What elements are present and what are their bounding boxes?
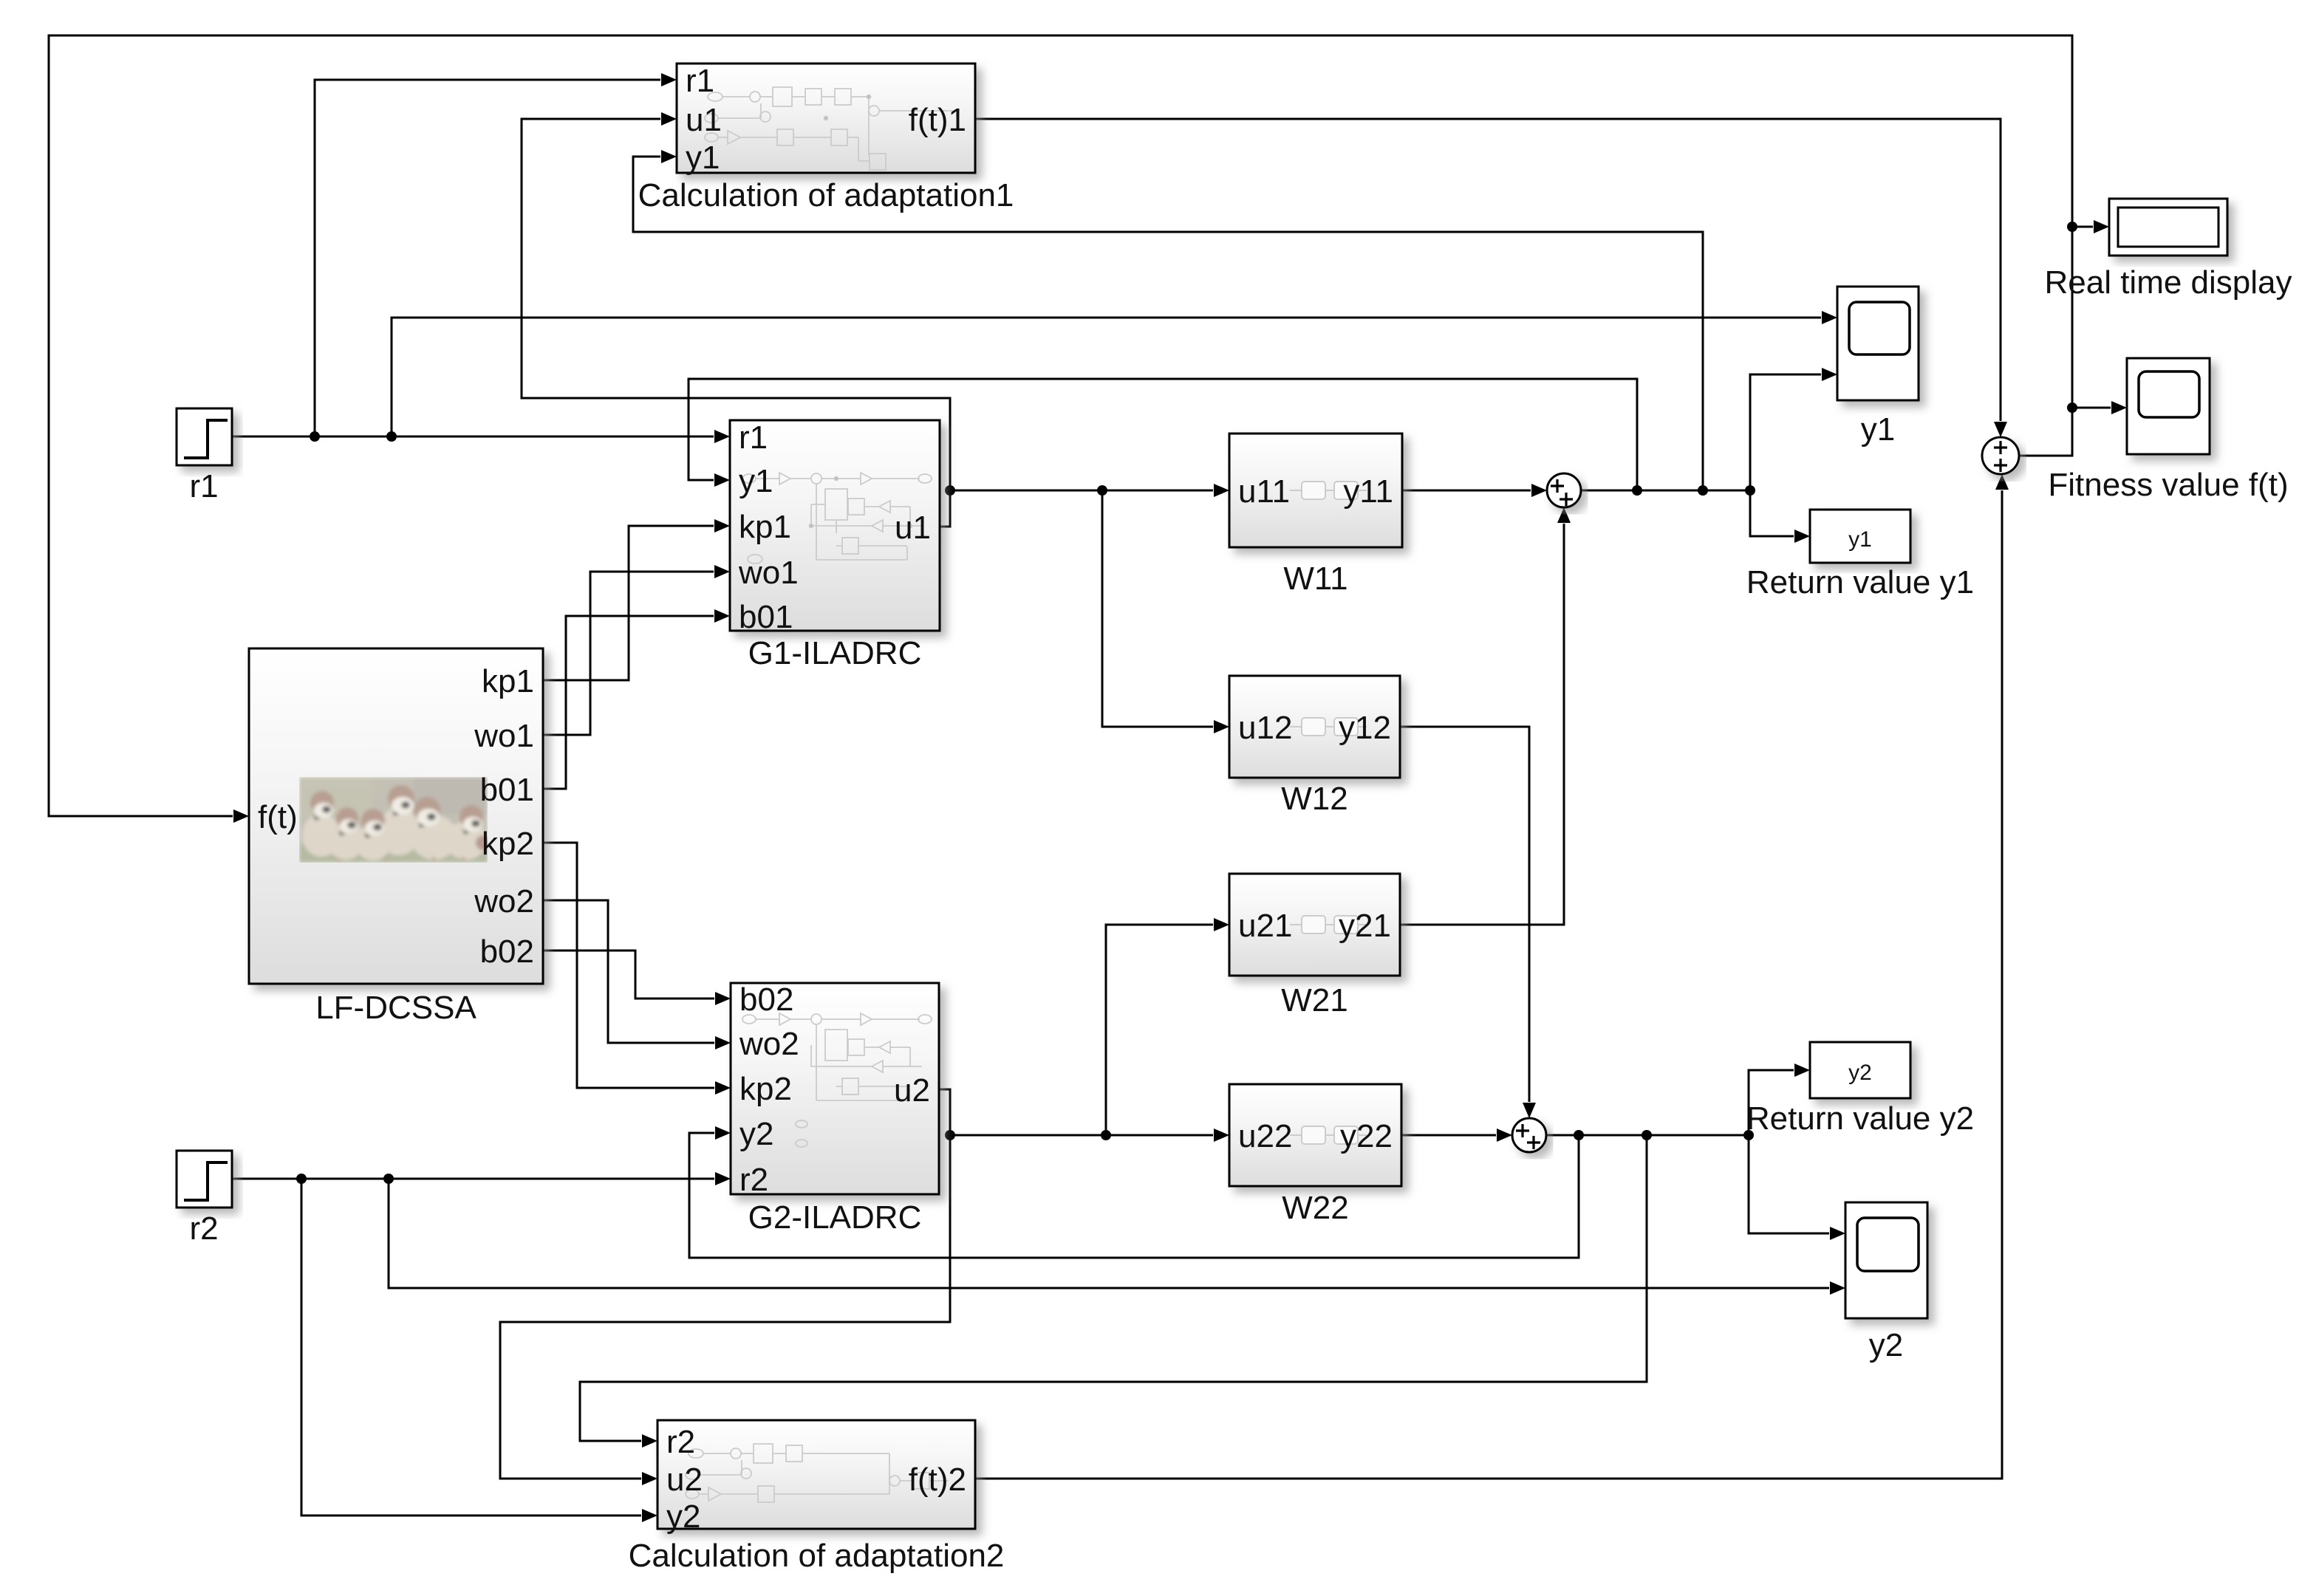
svg-text:y2: y2 bbox=[739, 1116, 773, 1152]
svg-text:y12: y12 bbox=[1339, 710, 1391, 746]
svg-text:y2: y2 bbox=[666, 1499, 700, 1535]
svg-text:W11: W11 bbox=[1283, 561, 1347, 597]
svg-text:y2: y2 bbox=[1848, 1061, 1872, 1085]
svg-text:kp2: kp2 bbox=[482, 826, 534, 862]
svg-text:kp1: kp1 bbox=[739, 509, 791, 545]
svg-text:u1: u1 bbox=[686, 102, 722, 138]
svg-text:G2-ILADRC: G2-ILADRC bbox=[748, 1199, 922, 1236]
svg-text:W22: W22 bbox=[1282, 1190, 1348, 1226]
svg-text:r1: r1 bbox=[686, 63, 714, 99]
svg-text:r1: r1 bbox=[189, 468, 218, 504]
svg-text:r2: r2 bbox=[739, 1162, 768, 1198]
svg-text:Return value y1: Return value y1 bbox=[1746, 564, 1974, 600]
svg-text:r2: r2 bbox=[666, 1424, 695, 1460]
svg-text:r2: r2 bbox=[189, 1210, 218, 1247]
svg-text:y1: y1 bbox=[686, 140, 720, 176]
svg-text:Real time display: Real time display bbox=[2044, 264, 2292, 301]
svg-text:Return value y2: Return value y2 bbox=[1746, 1100, 1974, 1137]
svg-text:f(t)1: f(t)1 bbox=[909, 102, 966, 138]
svg-text:y1: y1 bbox=[1861, 411, 1895, 448]
svg-text:u22: u22 bbox=[1238, 1118, 1292, 1154]
svg-text:Calculation of adaptation2: Calculation of adaptation2 bbox=[629, 1538, 1005, 1574]
svg-text:y1: y1 bbox=[739, 463, 773, 499]
svg-text:u1: u1 bbox=[895, 510, 931, 546]
svg-text:W21: W21 bbox=[1281, 982, 1347, 1018]
svg-text:u12: u12 bbox=[1238, 710, 1292, 746]
svg-text:y1: y1 bbox=[1848, 527, 1872, 552]
svg-text:u11: u11 bbox=[1238, 473, 1290, 510]
svg-text:f(t)2: f(t)2 bbox=[909, 1462, 966, 1498]
svg-text:b01: b01 bbox=[739, 599, 793, 635]
svg-text:b01: b01 bbox=[480, 772, 534, 808]
svg-text:Calculation of adaptation1: Calculation of adaptation1 bbox=[638, 177, 1014, 213]
svg-text:u2: u2 bbox=[666, 1462, 703, 1498]
svg-text:b02: b02 bbox=[739, 982, 793, 1018]
svg-text:y21: y21 bbox=[1339, 908, 1391, 944]
svg-text:W12: W12 bbox=[1281, 781, 1347, 817]
svg-text:wo2: wo2 bbox=[739, 1026, 799, 1062]
svg-text:b02: b02 bbox=[480, 934, 534, 970]
svg-text:y22: y22 bbox=[1340, 1118, 1393, 1154]
svg-text:wo2: wo2 bbox=[474, 883, 534, 919]
svg-text:u2: u2 bbox=[894, 1072, 930, 1109]
svg-text:wo1: wo1 bbox=[474, 718, 534, 754]
svg-text:f(t): f(t) bbox=[258, 799, 298, 835]
svg-text:y2: y2 bbox=[1869, 1327, 1903, 1363]
svg-text:G1-ILADRC: G1-ILADRC bbox=[748, 635, 922, 671]
svg-text:LF-DCSSA: LF-DCSSA bbox=[315, 990, 476, 1026]
svg-text:r1: r1 bbox=[739, 419, 768, 456]
svg-text:Fitness value f(t): Fitness value f(t) bbox=[2048, 467, 2288, 503]
svg-text:kp2: kp2 bbox=[739, 1071, 792, 1107]
svg-text:wo1: wo1 bbox=[738, 555, 799, 591]
svg-text:u21: u21 bbox=[1238, 908, 1292, 944]
svg-text:kp1: kp1 bbox=[482, 663, 534, 699]
svg-text:y11: y11 bbox=[1343, 473, 1393, 510]
